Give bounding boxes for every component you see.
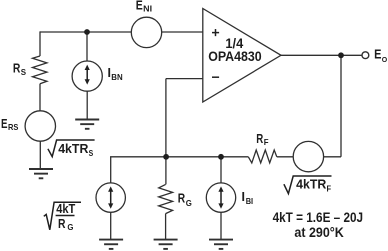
svg-text:R: R	[256, 132, 263, 146]
svg-text:E: E	[1, 117, 8, 131]
svg-text:R: R	[13, 62, 21, 76]
svg-text:F: F	[264, 137, 269, 147]
svg-text:4kTR: 4kTR	[296, 177, 326, 191]
svg-text:NI: NI	[143, 4, 152, 14]
svg-text:S: S	[89, 148, 94, 158]
svg-text:R: R	[178, 192, 185, 206]
svg-text:at 290°K: at 290°K	[294, 225, 344, 240]
svg-text:4kTR: 4kTR	[58, 142, 88, 156]
svg-text:G: G	[67, 222, 73, 232]
svg-text:G: G	[186, 198, 192, 208]
svg-text:4kT = 1.6E – 20J: 4kT = 1.6E – 20J	[273, 210, 364, 225]
svg-text:E: E	[136, 0, 143, 13]
svg-text:OPA4830: OPA4830	[208, 49, 262, 64]
svg-text:O: O	[382, 57, 388, 64]
svg-text:F: F	[327, 184, 332, 194]
svg-text:S: S	[21, 67, 27, 77]
svg-text:RS: RS	[8, 122, 19, 132]
svg-text:BI: BI	[246, 196, 253, 206]
svg-text:4kT: 4kT	[56, 202, 75, 216]
svg-text:BN: BN	[111, 72, 122, 82]
svg-text:R: R	[58, 217, 66, 231]
svg-text:E: E	[374, 48, 381, 62]
svg-text:I: I	[242, 190, 245, 204]
